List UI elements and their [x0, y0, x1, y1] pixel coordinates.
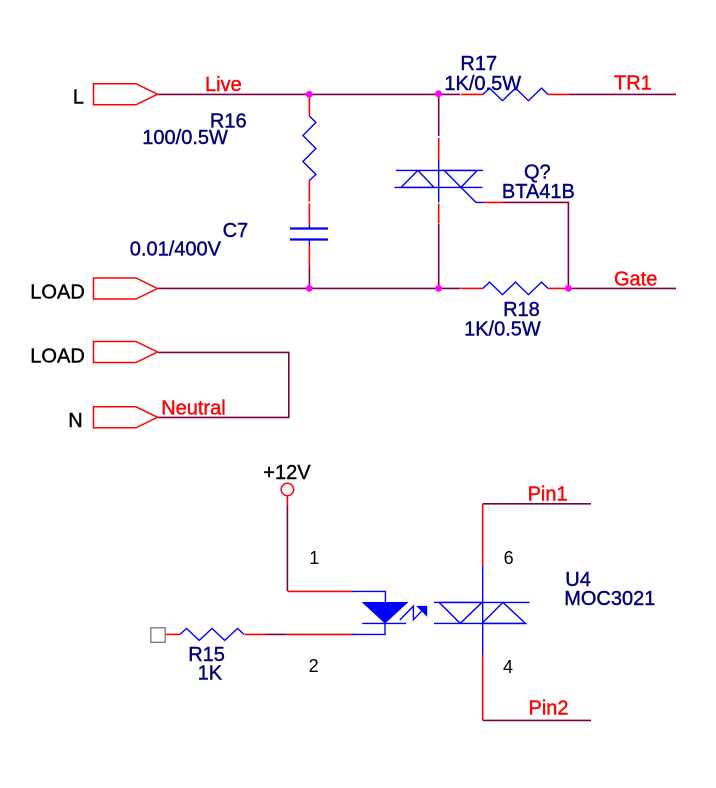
svg-text:Gate: Gate: [614, 268, 657, 290]
svg-text:R17: R17: [460, 53, 497, 75]
svg-text:1K: 1K: [198, 663, 223, 685]
svg-text:TR1: TR1: [614, 72, 652, 94]
svg-text:Live: Live: [205, 74, 242, 96]
svg-text:Neutral: Neutral: [161, 398, 225, 420]
svg-text:100/0.5W: 100/0.5W: [142, 127, 228, 149]
svg-text:MOC3021: MOC3021: [564, 588, 655, 610]
svg-text:Pin1: Pin1: [528, 483, 568, 505]
svg-text:LOAD: LOAD: [30, 282, 84, 304]
svg-text:1K/0.5W: 1K/0.5W: [464, 319, 541, 341]
svg-text:LOAD: LOAD: [30, 346, 84, 368]
svg-text:0.01/400V: 0.01/400V: [130, 238, 222, 260]
svg-text:1: 1: [309, 548, 319, 568]
svg-text:1K/0.5W: 1K/0.5W: [444, 73, 521, 95]
svg-text:C7: C7: [223, 220, 249, 242]
svg-text:N: N: [68, 410, 82, 432]
svg-text:Pin2: Pin2: [529, 697, 569, 719]
svg-text:BTA41B: BTA41B: [502, 181, 575, 203]
svg-text:+12V: +12V: [263, 462, 311, 484]
svg-text:2: 2: [309, 656, 319, 676]
svg-text:4: 4: [503, 657, 513, 677]
svg-text:6: 6: [504, 548, 514, 568]
svg-text:L: L: [73, 87, 84, 109]
